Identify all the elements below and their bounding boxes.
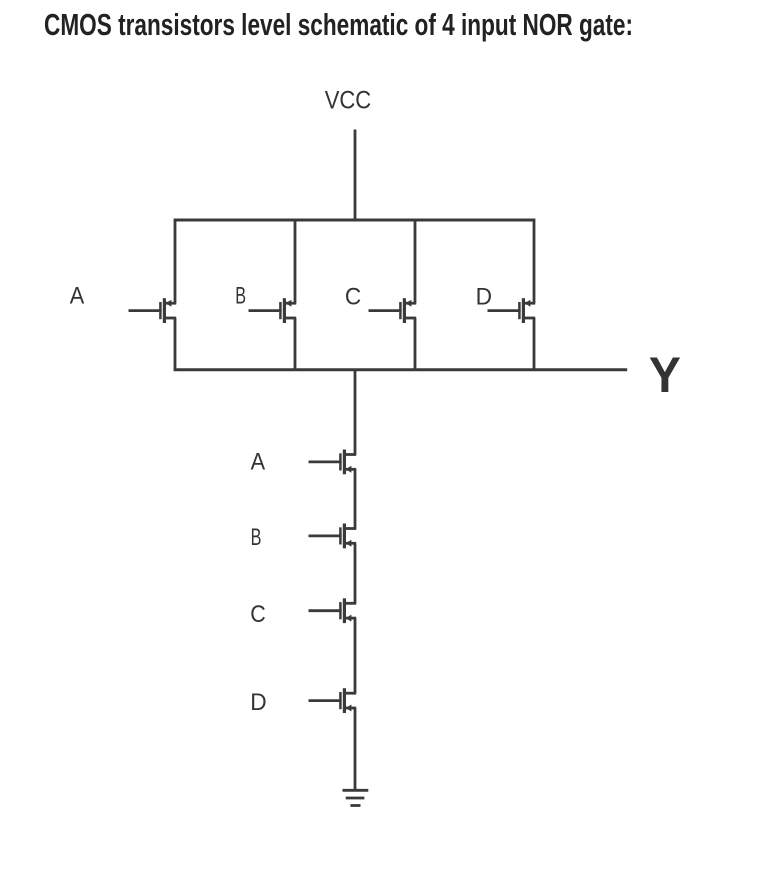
wire pull-up branch 4 (x=534) <box>533 220 536 370</box>
wire pull-up branch 1 (x=175) <box>174 220 177 370</box>
wire pull-down stem segment 3 <box>354 544 357 604</box>
transistor PMOS B <box>249 298 297 323</box>
svg-text:D: D <box>476 284 492 311</box>
svg-text:D: D <box>250 689 266 716</box>
transistor NMOS D <box>309 688 357 713</box>
wire VCC stem <box>354 130 357 222</box>
wire pull-down stem segment 1 <box>354 370 357 455</box>
svg-text:VCC: VCC <box>325 86 372 114</box>
transistor NMOS C <box>309 598 357 623</box>
wire pull-down stem segment 4 <box>354 618 357 693</box>
svg-text:C: C <box>345 284 361 311</box>
transistor PMOS A <box>129 298 177 323</box>
wire pull-up branch 3 (x=415) <box>414 220 417 370</box>
transistor NMOS A <box>309 450 357 475</box>
transistor PMOS D <box>488 298 536 323</box>
svg-text:A: A <box>251 448 266 475</box>
svg-text:B: B <box>235 282 246 309</box>
transistor PMOS C <box>369 298 417 323</box>
svg-text:CMOS transistors level schemat: CMOS transistors level schematic of 4 in… <box>44 7 633 42</box>
wire output rail to Y <box>174 368 628 371</box>
svg-text:A: A <box>70 283 85 310</box>
ground <box>343 790 369 805</box>
wire top VCC rail <box>174 219 536 222</box>
transistor NMOS B <box>309 524 357 549</box>
svg-text:C: C <box>250 601 265 628</box>
wire pull-up branch 2 (x=295) <box>294 220 297 370</box>
svg-text:B: B <box>251 524 262 551</box>
wire pull-down stem segment 2 <box>354 469 357 529</box>
svg-text:Y: Y <box>649 347 681 403</box>
wire pull-down stem segment 5 (to ground) <box>354 708 357 790</box>
